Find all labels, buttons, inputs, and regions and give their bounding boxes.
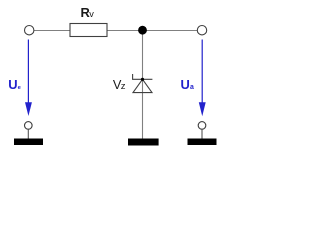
zener diode apex dot [141, 78, 144, 81]
arrow Ua head [199, 102, 206, 116]
ground left [14, 139, 43, 146]
terminal bottom-right [198, 122, 206, 130]
svg-text:v: v [89, 9, 94, 19]
ground middle [128, 139, 159, 146]
wire input terminal to resistor [34, 30, 70, 32]
arrow Ue shaft [27, 40, 29, 105]
svg-text:U: U [181, 77, 190, 92]
wire stem bottom-right [201, 130, 203, 139]
zener diode triangle [133, 79, 152, 92]
arrow Ua shaft [201, 40, 203, 105]
node junction [138, 26, 147, 35]
zener diode cathode bar [133, 74, 153, 79]
label Ue [8, 77, 21, 92]
terminal output top-right [197, 26, 206, 35]
terminal input top-left [25, 26, 34, 35]
wire resistor to output terminal [107, 30, 197, 32]
arrow Ue head [25, 102, 32, 116]
terminal bottom-left [25, 122, 33, 130]
label Vz [113, 77, 126, 92]
label Rv [81, 5, 95, 20]
ground right [188, 139, 217, 146]
svg-text:a: a [190, 84, 194, 91]
wire junction to ground [142, 31, 144, 140]
resistor Rv [70, 24, 107, 37]
label Ua [181, 77, 195, 92]
wire stem bottom-left [27, 130, 29, 139]
svg-text:U: U [8, 77, 17, 92]
svg-text:z: z [121, 81, 126, 92]
